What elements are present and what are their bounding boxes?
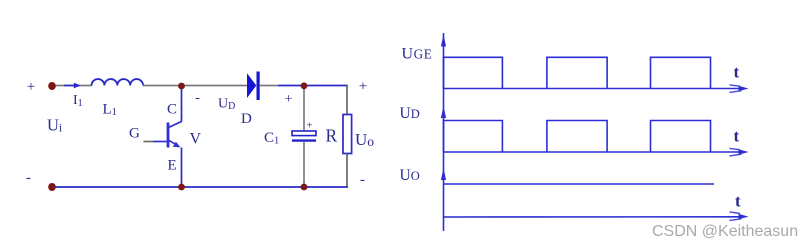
axis arrow up (UO) [441,168,446,180]
svg-text:+: + [306,120,312,132]
diode D [247,72,260,101]
UO t-axis [444,216,742,218]
svg-text:t: t [734,127,740,146]
svg-text:+: + [285,92,293,107]
svg-text:CSDN @Keitheasun: CSDN @Keitheasun [652,223,798,240]
UD t-axis [444,151,742,153]
transistor V (gate wire) [144,141,154,143]
svg-text:+: + [27,79,35,95]
transistor V (emitter wire) [181,148,183,187]
svg-text:V: V [190,130,202,147]
wire cap node to top-right corner [307,85,348,87]
transistor V (emitter diagonal with arrow) [169,140,178,145]
svg-text:UGE: UGE [402,46,433,63]
arrow barb lower (UGE) [730,91,742,93]
wire [278,85,301,87]
svg-text:C: C [167,102,177,118]
UD pulse 1 [444,121,503,153]
svg-text:UO: UO [400,167,420,184]
node emitter-bottom [178,184,185,191]
svg-text:UD: UD [400,105,420,122]
capacitor C1 (top plate) [292,131,316,136]
arrow barb lower (UO) [730,219,742,221]
svg-text:-: - [26,170,31,186]
node input+ [48,82,56,90]
node diode-cap [301,82,308,89]
arrow barb upper (UD) [730,148,741,149]
svg-text:E: E [168,158,177,174]
svg-text:D: D [241,111,252,127]
waveform vertical axis [443,33,445,231]
capacitor C1 (top wire) [303,87,305,131]
UD pulse 3 [651,121,711,153]
arrow barb lower (UD) [730,154,742,156]
svg-text:t: t [735,192,741,211]
svg-text:-: - [360,172,365,188]
axis arrow right (UD) [739,149,749,154]
UGE pulse 3 [651,57,711,88]
UGE pulse 2 [547,57,607,88]
UGE pulse 1 [444,57,503,88]
transistor V (collector diagonal) [169,121,182,127]
axis arrow right (UGE) [739,86,749,91]
axis arrow up (UGE) [441,35,446,47]
inductor L1 [92,79,144,85]
svg-text:t: t [734,63,740,82]
capacitor C1 (bottom wire) [303,142,305,186]
svg-text:+: + [359,79,367,95]
wire [153,141,167,143]
svg-text:-: - [195,91,200,106]
capacitor C1 (bottom plate) [292,139,316,141]
node collector-top [178,83,185,90]
UO value line [444,183,715,185]
wire diode to cap node [260,85,278,87]
wire top rail left (node to inductor) [55,85,92,87]
wire bottom rail [53,186,348,188]
axis arrow right (UO) [739,214,749,219]
arrow barb upper (UGE) [730,85,741,86]
resistor R [343,115,352,154]
axis arrow up (UD) [441,106,446,118]
wire inductor to collector node [143,85,180,87]
UGE t-axis [444,88,742,90]
wire collector node to diode [183,85,247,87]
wire top-right corner down to resistor [346,86,348,116]
node input- [48,183,56,191]
UD pulse 2 [547,121,607,153]
arrow barb upper (UO) [730,212,741,214]
svg-text:G: G [129,126,140,142]
wire resistor to bottom rail [346,154,348,188]
node cap-bottom [301,184,308,191]
transistor V (base bar) [167,123,170,148]
current arrow I1 [64,83,81,89]
svg-text:R: R [326,126,338,146]
transistor V (collector wire) [181,87,183,122]
